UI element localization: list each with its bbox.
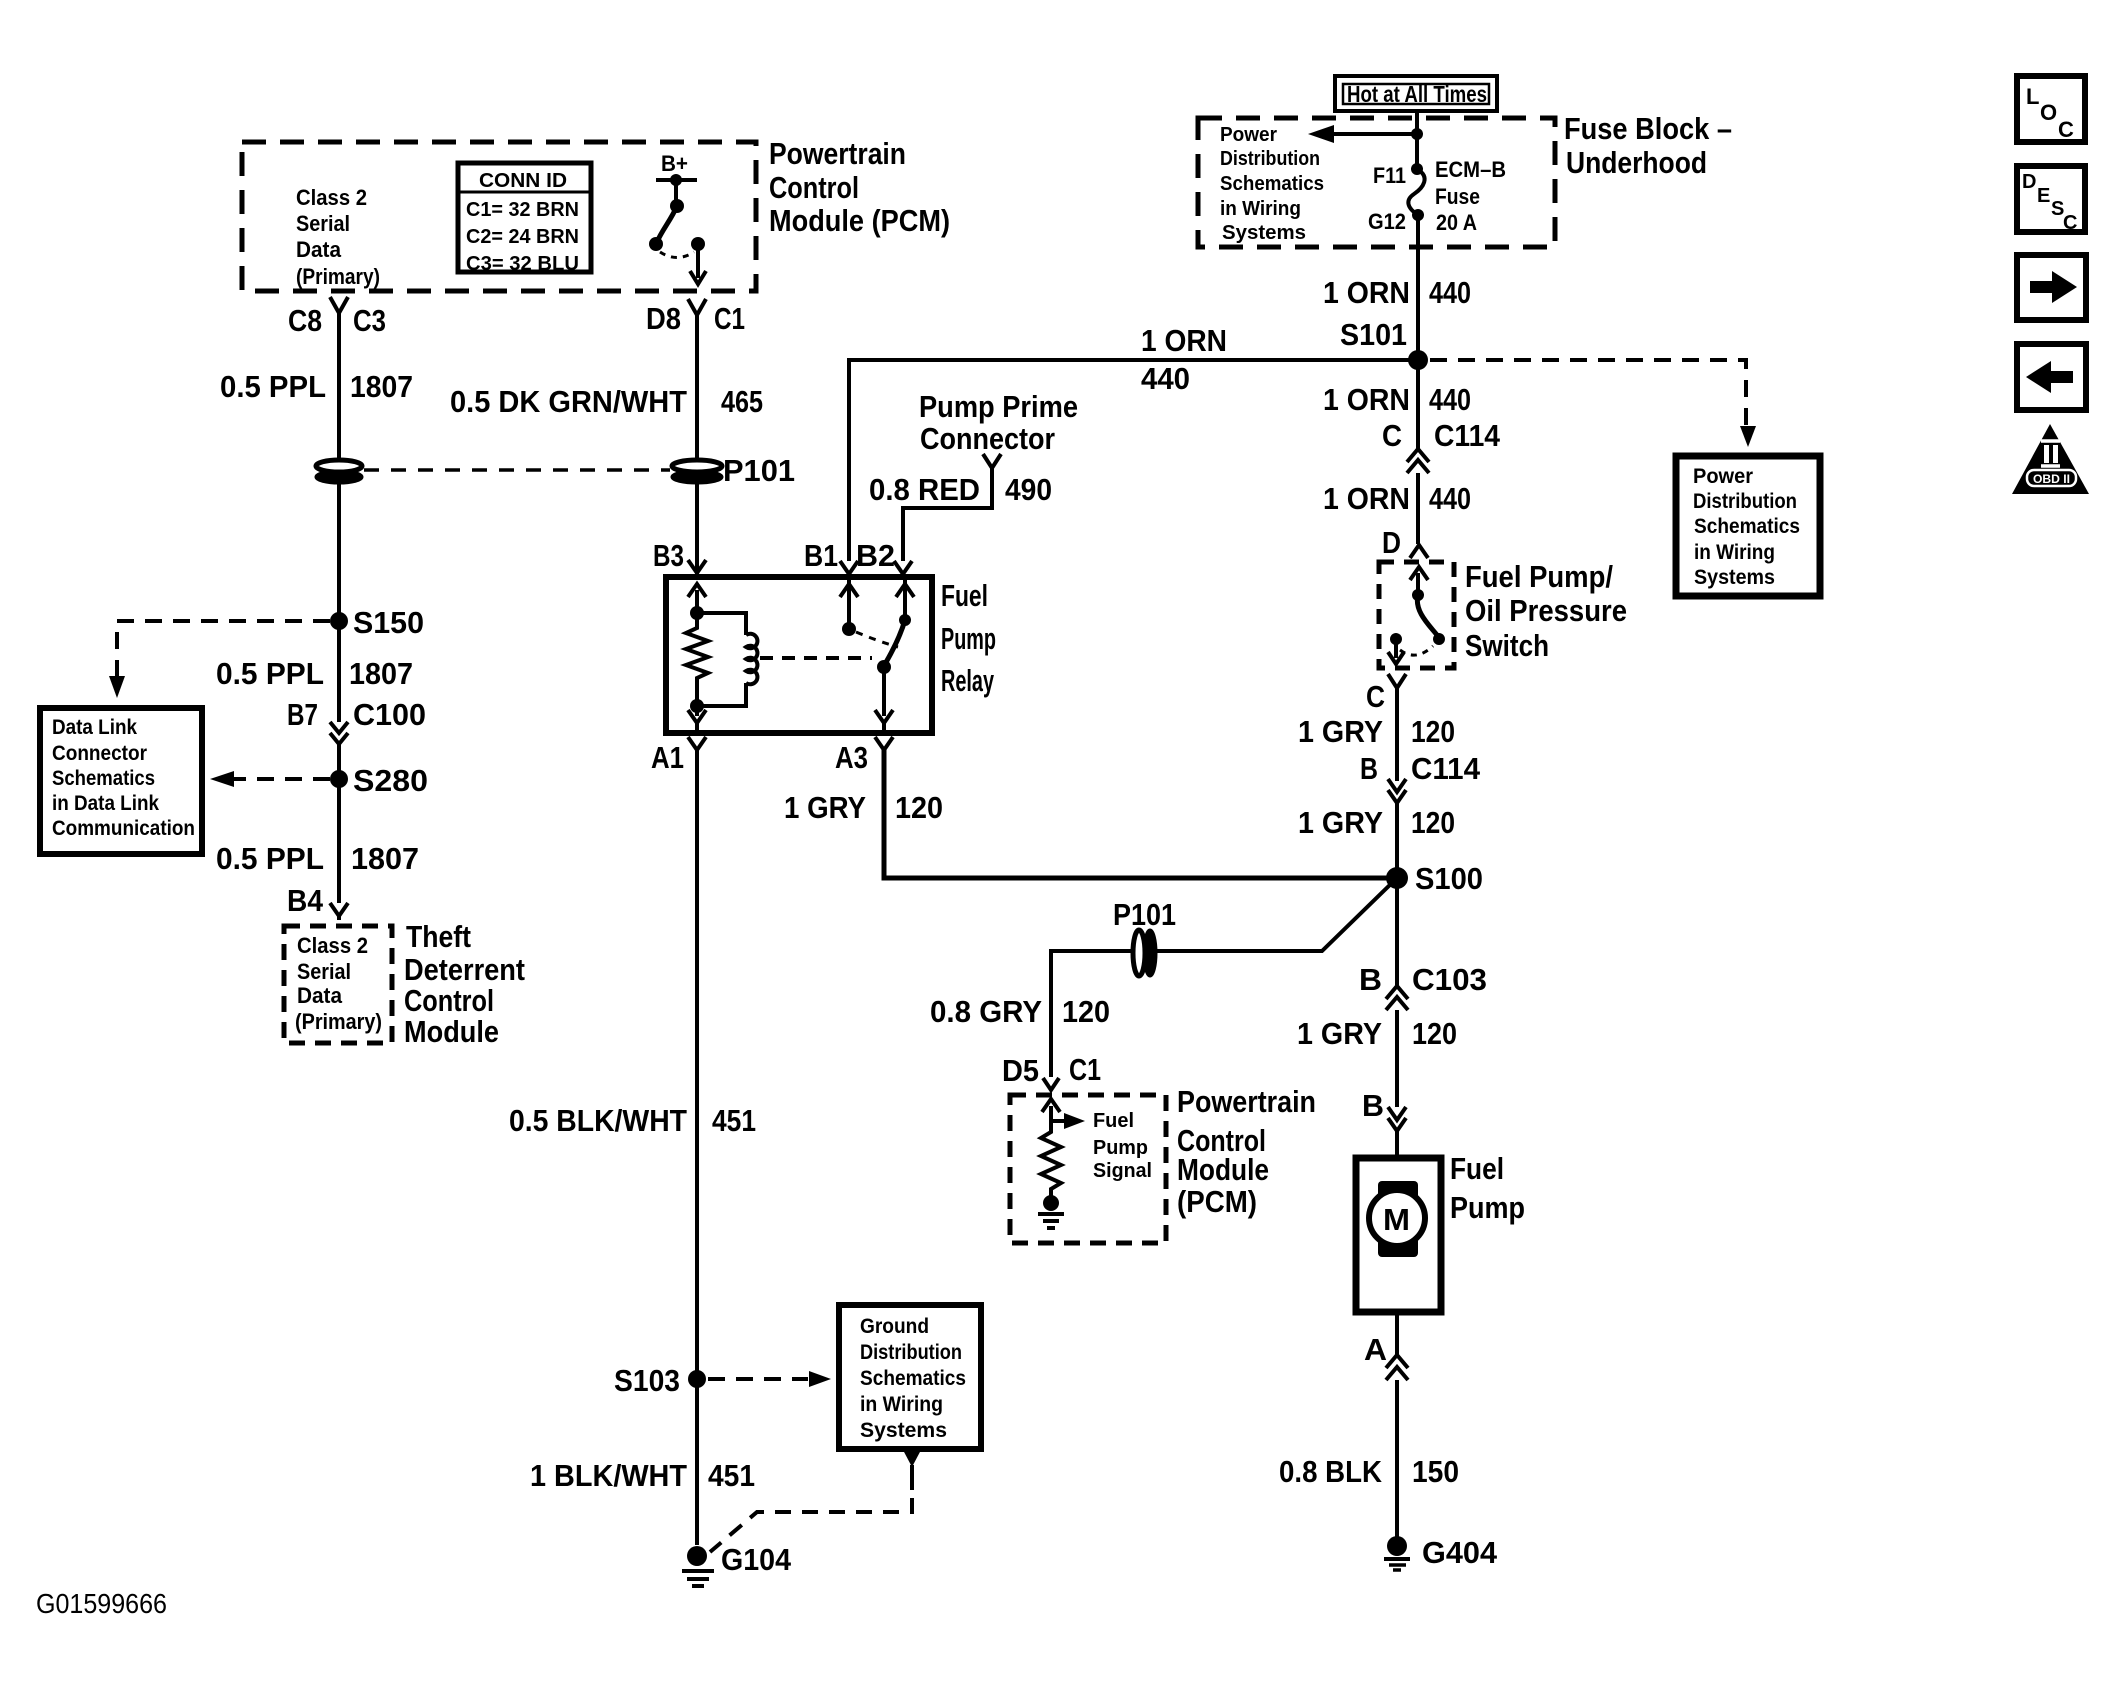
wire: A down to G404 — [1395, 1380, 1399, 1545]
svg-text:Power: Power — [1693, 465, 1753, 488]
splice S101 — [1340, 317, 1428, 370]
svg-text:C1= 32 BRN: C1= 32 BRN — [466, 199, 579, 221]
connector C / C114 — [1382, 418, 1501, 473]
wire label 1 GRY | 120 (above B/C114) — [1298, 714, 1455, 749]
wire label 1 ORN / 440 (horizontal run) — [1141, 323, 1227, 396]
wire: banner down into fuse block — [1415, 111, 1419, 169]
svg-text:Serial: Serial — [297, 959, 351, 984]
connector A3 below relay — [835, 737, 893, 775]
wire: P101 down to S150 — [337, 482, 341, 621]
svg-text:1807: 1807 — [349, 656, 413, 691]
svg-text:in Data Link: in Data Link — [52, 792, 159, 815]
svg-text:120: 120 — [1411, 805, 1455, 840]
note text: Power Distribution Schematics in Wiring Systems (fuse block) — [1220, 124, 1324, 244]
label: Fuel Pump Relay — [941, 578, 996, 698]
CONN ID table — [458, 163, 591, 275]
svg-text:G104: G104 — [721, 1542, 792, 1577]
svg-text:B: B — [1360, 751, 1378, 786]
svg-text:0.5 PPL: 0.5 PPL — [216, 656, 324, 691]
svg-text:0.8 RED: 0.8 RED — [869, 472, 980, 507]
svg-text:E: E — [2037, 185, 2050, 207]
svg-text:O: O — [2040, 100, 2057, 125]
module box: Theft Deterrent Control Module (dashed) — [284, 926, 392, 1043]
svg-text:C2= 24 BRN: C2= 24 BRN — [466, 226, 579, 248]
wire: S100 down to C103 — [1395, 878, 1399, 988]
svg-text:1 GRY: 1 GRY — [1298, 805, 1383, 840]
svg-text:1807: 1807 — [350, 369, 413, 404]
banner: Hot at All Times — [1335, 76, 1497, 111]
svg-text:Switch: Switch — [1465, 628, 1549, 663]
connector B1 above relay — [804, 538, 858, 574]
svg-text:Schematics: Schematics — [52, 767, 155, 790]
svg-text:Ground: Ground — [860, 1315, 929, 1338]
in-line connector P101 (left half, lens symbol) — [316, 460, 362, 483]
wire: fuel pump down to connector A — [1395, 1312, 1399, 1357]
svg-text:Data Link: Data Link — [52, 716, 137, 739]
module box: Powertrain Control Module (PCM), dashed outline — [242, 142, 756, 291]
relay box: Fuel Pump Relay — [666, 577, 932, 733]
wire: P101 down to relay pin B3 — [695, 482, 699, 577]
fuse F11/G12 ECM-B Fuse 20 A — [1368, 157, 1506, 235]
svg-text:C114: C114 — [1434, 418, 1501, 453]
svg-text:(Primary): (Primary) — [296, 264, 380, 289]
svg-text:Powertrain: Powertrain — [1177, 1084, 1316, 1119]
wire: C1 down to P101 — [695, 315, 699, 460]
oil pressure switch internals — [1388, 567, 1445, 664]
svg-text:Distribution: Distribution — [1220, 148, 1320, 170]
svg-text:C: C — [1382, 418, 1402, 453]
icon: arrow right — [2017, 255, 2086, 320]
svg-text:120: 120 — [1062, 994, 1110, 1029]
wire label 1 ORN | 440 (below S101) — [1323, 382, 1471, 417]
connector A1 below relay — [651, 737, 706, 775]
relay dashed throw arc — [856, 632, 898, 647]
wire label 0.5 DK GRN/WHT | 465 — [450, 384, 763, 419]
label: Powertrain Control Module (PCM) — [769, 136, 950, 238]
svg-text:Fuse: Fuse — [1435, 184, 1480, 209]
svg-text:Connector: Connector — [52, 742, 147, 765]
svg-text:L: L — [2026, 84, 2039, 109]
svg-text:Oil Pressure: Oil Pressure — [1465, 593, 1627, 628]
svg-text:Module (PCM): Module (PCM) — [769, 203, 950, 238]
svg-text:0.5 BLK/WHT: 0.5 BLK/WHT — [509, 1103, 687, 1138]
label: Pump Prime Connector — [919, 389, 1078, 456]
svg-text:Underhood: Underhood — [1566, 145, 1707, 180]
svg-text:C: C — [1366, 679, 1385, 714]
pump prime connector terminal (Y) — [983, 454, 1001, 468]
ground G104 — [682, 1542, 792, 1586]
wire: B7/C100 to S280 — [337, 744, 341, 779]
svg-text:20 A: 20 A — [1436, 210, 1477, 235]
wire: pump prime connector down to relay pin B2 — [903, 468, 992, 561]
in-line connector P101 (vertical, signal branch) — [1113, 897, 1176, 976]
module box: PCM fuel pump signal (dashed) — [1010, 1095, 1166, 1243]
wire label 1 BLK/WHT | 451 — [530, 1458, 755, 1493]
svg-text:ECM–B: ECM–B — [1435, 157, 1506, 182]
label: Fuel Pump Signal — [1093, 1110, 1152, 1182]
dashed reference from S101 to right Power Distribution box — [1430, 360, 1756, 447]
svg-text:(Primary): (Primary) — [295, 1009, 382, 1034]
svg-text:120: 120 — [1411, 714, 1455, 749]
svg-text:in Wiring: in Wiring — [1220, 198, 1301, 220]
wire label 0.8 BLK | 150 — [1279, 1454, 1459, 1489]
svg-text:Pump: Pump — [1450, 1190, 1525, 1225]
wire label 0.5 PPL | 1807 — [220, 369, 413, 404]
relay pin B2 and switch blade — [877, 577, 914, 674]
connector A — [1364, 1332, 1408, 1380]
svg-text:C114: C114 — [1411, 751, 1481, 786]
connector B4 (terminal into theft module) — [287, 883, 348, 920]
svg-text:0.8 BLK: 0.8 BLK — [1279, 1454, 1383, 1489]
wire: S280 to B4 — [337, 779, 341, 903]
connector D8 / C1 at PCM box bottom — [646, 299, 745, 336]
svg-text:S101: S101 — [1340, 317, 1407, 352]
wire label 1 GRY | 120 (A3 branch) — [784, 790, 943, 825]
dashed tie line between P101 halves — [364, 468, 670, 472]
wire: A1 down to S103 — [695, 750, 699, 1379]
svg-text:Systems: Systems — [1694, 566, 1775, 589]
switch symbol inside PCM box (B+ driver) — [649, 151, 706, 284]
svg-text:C1: C1 — [714, 301, 745, 336]
svg-text:F11: F11 — [1373, 163, 1406, 188]
svg-text:Schematics: Schematics — [860, 1367, 966, 1390]
wire: C3 down to in-line connector P101 — [337, 313, 341, 460]
svg-text:Powertrain: Powertrain — [769, 136, 906, 171]
svg-text:Module: Module — [404, 1014, 499, 1049]
svg-text:440: 440 — [1429, 382, 1471, 417]
switch box: Fuel Pump / Oil Pressure Switch (dashed) — [1379, 562, 1454, 668]
junction dot and arrow to power distribution note — [1308, 125, 1423, 143]
svg-text:B1: B1 — [804, 538, 838, 573]
svg-text:Data: Data — [296, 237, 342, 262]
splice S150 — [330, 605, 424, 640]
svg-text:Signal: Signal — [1093, 1160, 1152, 1182]
wire: A3 down and right to S100 — [884, 750, 1397, 878]
wire: S100 diagonal down to PCM signal tap — [1157, 878, 1397, 951]
connector B above fuel pump — [1362, 1088, 1406, 1131]
svg-text:0.5 PPL: 0.5 PPL — [216, 841, 324, 876]
svg-text:Deterrent: Deterrent — [404, 952, 525, 987]
svg-text:C8: C8 — [288, 303, 322, 338]
svg-text:0.5 PPL: 0.5 PPL — [220, 369, 326, 404]
svg-text:Relay: Relay — [941, 663, 994, 698]
svg-text:B: B — [1362, 1088, 1384, 1123]
svg-text:Power: Power — [1220, 124, 1277, 146]
wire: fuse down to S101 — [1416, 215, 1420, 360]
info box: Power Distribution Schematics in Wiring Systems (right) — [1676, 456, 1820, 596]
svg-text:P101: P101 — [1113, 897, 1176, 932]
svg-text:S280: S280 — [353, 763, 428, 798]
splice S100 — [1386, 861, 1483, 896]
svg-text:440: 440 — [1429, 275, 1471, 310]
svg-text:G404: G404 — [1422, 1535, 1498, 1570]
svg-text:Communication: Communication — [52, 817, 195, 840]
wire label 0.8 RED | 490 — [869, 472, 1052, 507]
svg-text:Class 2: Class 2 — [297, 933, 368, 958]
svg-text:120: 120 — [895, 790, 943, 825]
label: Fuse Block - Underhood — [1564, 111, 1732, 180]
wire label 0.8 GRY | 120 — [930, 994, 1110, 1029]
svg-text:Data: Data — [297, 983, 343, 1008]
svg-text:0.5 DK GRN/WHT: 0.5 DK GRN/WHT — [450, 384, 687, 419]
label: Fuel Pump / Oil Pressure Switch — [1465, 559, 1627, 663]
svg-text:Distribution: Distribution — [860, 1341, 962, 1364]
fuse block dashed box — [1198, 118, 1555, 247]
wire: S101 down to connector C/C114 — [1416, 360, 1420, 451]
svg-text:Schematics: Schematics — [1694, 515, 1800, 538]
svg-text:C: C — [2063, 212, 2077, 234]
svg-text:B4: B4 — [287, 883, 324, 918]
svg-text:Control: Control — [404, 983, 494, 1018]
wire: S150 to connector B7/C100 — [337, 621, 341, 722]
svg-text:1 ORN: 1 ORN — [1141, 323, 1227, 358]
svg-text:451: 451 — [712, 1103, 756, 1138]
svg-text:150: 150 — [1412, 1454, 1459, 1489]
svg-text:OBD II: OBD II — [2033, 472, 2070, 486]
relay coil — [697, 613, 757, 706]
svg-text:P101: P101 — [723, 453, 795, 488]
wire: B down to fuel pump — [1395, 1131, 1399, 1158]
svg-text:Serial: Serial — [296, 211, 350, 236]
wire: S103 down to G104 — [695, 1379, 699, 1545]
wire label 0.5 PPL | 1807 (second) — [216, 656, 413, 691]
label: Fuel Pump — [1450, 1151, 1525, 1225]
connector B7 / C100 — [287, 697, 426, 744]
svg-text:A1: A1 — [651, 740, 684, 775]
svg-text:B: B — [1359, 962, 1382, 997]
svg-text:S103: S103 — [614, 1363, 680, 1398]
svg-text:A3: A3 — [835, 740, 868, 775]
svg-text:A: A — [1364, 1332, 1387, 1367]
splice S280 — [330, 763, 428, 798]
svg-text:Fuel: Fuel — [1093, 1110, 1134, 1132]
wire: C103 down to connector B — [1395, 1010, 1399, 1107]
svg-text:Systems: Systems — [860, 1419, 947, 1442]
svg-text:1 GRY: 1 GRY — [1297, 1016, 1382, 1051]
svg-text:1 GRY: 1 GRY — [784, 790, 866, 825]
wire: C114 down to connector D — [1416, 473, 1420, 544]
svg-text:C1: C1 — [1069, 1052, 1101, 1087]
svg-text:D: D — [2022, 171, 2036, 193]
svg-text:Fuel Pump/: Fuel Pump/ — [1465, 559, 1613, 594]
wire label 1 GRY | 120 (above S100) — [1298, 805, 1455, 840]
relay internal node (top of coil/resistor) — [690, 606, 704, 620]
wire: C down to connector B/C114 — [1395, 688, 1399, 781]
svg-text:B+: B+ — [661, 151, 688, 176]
ground G404 — [1384, 1535, 1498, 1570]
wire label 1 ORN | 440 (above S101) — [1323, 275, 1471, 310]
relay pin A3 exit arrow — [875, 667, 893, 733]
dashed reference arrow from S103 to ground box — [708, 1371, 831, 1387]
svg-text:G12: G12 — [1368, 209, 1406, 234]
wire label 0.5 PPL | 1807 (third) — [216, 841, 419, 876]
fuel pump box — [1356, 1158, 1441, 1312]
wire: B/C114 down to S100 — [1395, 803, 1399, 878]
svg-text:Systems: Systems — [1222, 222, 1306, 244]
svg-text:Fuel: Fuel — [941, 578, 988, 613]
icon: LOC — [2017, 76, 2085, 142]
svg-text:C100: C100 — [353, 697, 426, 732]
label: Theft Deterrent Control Module — [404, 919, 525, 1049]
splice S103 — [614, 1363, 706, 1398]
svg-text:D5: D5 — [1002, 1053, 1039, 1088]
svg-text:B7: B7 — [287, 697, 318, 732]
svg-text:B3: B3 — [653, 538, 684, 573]
svg-text:Control: Control — [769, 170, 859, 205]
svg-text:440: 440 — [1429, 481, 1471, 516]
dashed reference from S150 to Data Link box — [109, 621, 330, 698]
svg-text:in Wiring: in Wiring — [860, 1393, 943, 1416]
svg-text:Hot at All Times: Hot at All Times — [1347, 81, 1487, 107]
icon: OBD II triangle — [2012, 424, 2089, 494]
connector B2 above relay — [856, 538, 912, 574]
svg-text:Schematics: Schematics — [1220, 173, 1324, 195]
wire label 1 GRY | 120 (below C103) — [1297, 1016, 1457, 1051]
svg-text:B2: B2 — [856, 538, 895, 573]
relay resistor — [686, 618, 708, 700]
svg-text:S150: S150 — [353, 605, 424, 640]
icon: arrow left — [2017, 344, 2086, 410]
connector C8 / C3 at PCM box bottom — [288, 297, 386, 338]
svg-text:M: M — [1383, 1202, 1410, 1237]
svg-text:1 ORN: 1 ORN — [1323, 382, 1410, 417]
svg-text:Pump: Pump — [1093, 1137, 1148, 1159]
label: Class 2 Serial Data (Primary) inside PCM box — [296, 185, 380, 289]
connector B3 — [653, 538, 706, 573]
svg-text:451: 451 — [708, 1458, 755, 1493]
svg-text:Pump: Pump — [941, 621, 996, 656]
relay pin B3 entry arrow — [688, 584, 706, 613]
svg-text:0.8 GRY: 0.8 GRY — [930, 994, 1042, 1029]
wire label 1 ORN | 440 (above D) — [1323, 481, 1471, 516]
svg-text:(PCM): (PCM) — [1177, 1184, 1257, 1219]
icon: DESC — [2017, 166, 2085, 234]
svg-text:D: D — [1382, 525, 1401, 560]
svg-text:CONN ID: CONN ID — [479, 170, 567, 192]
label: Powertrain Control Module (PCM) (bottom) — [1177, 1084, 1316, 1219]
connector B / C114 — [1360, 751, 1481, 803]
svg-text:D8: D8 — [646, 301, 681, 336]
svg-text:Connector: Connector — [920, 421, 1055, 456]
svg-text:1807: 1807 — [351, 841, 419, 876]
svg-text:Module: Module — [1177, 1152, 1269, 1187]
in-line connector P101 (right half) with label — [672, 453, 795, 488]
relay dashed actuation line from coil — [760, 656, 872, 660]
svg-text:Fuel: Fuel — [1450, 1151, 1504, 1186]
info box: Data Link Connector Schematics in Data Link Communication — [40, 708, 202, 854]
svg-text:1 GRY: 1 GRY — [1298, 714, 1383, 749]
info box: Ground Distribution Schematics in Wiring Systems — [839, 1305, 981, 1449]
svg-text:440: 440 — [1141, 361, 1190, 396]
svg-text:G01599666: G01599666 — [36, 1588, 167, 1619]
dashed return from ground box toward G104 — [710, 1450, 921, 1552]
connector D — [1382, 525, 1428, 560]
wire: P101 left then down to D5 — [1051, 951, 1133, 1077]
connector C below switch box — [1366, 674, 1406, 714]
svg-text:S100: S100 — [1415, 861, 1483, 896]
dashed reference arrow from S280 to Data Link box — [210, 771, 330, 787]
svg-text:490: 490 — [1005, 472, 1052, 507]
svg-text:465: 465 — [721, 384, 763, 419]
svg-text:in Wiring: in Wiring — [1694, 541, 1775, 564]
relay internal node (bottom) — [690, 699, 704, 713]
connector B / C103 — [1359, 962, 1487, 1010]
fuel pump motor symbol — [1369, 1181, 1425, 1257]
svg-text:120: 120 — [1412, 1016, 1457, 1051]
svg-text:C3= 32 BLU: C3= 32 BLU — [466, 253, 579, 275]
svg-text:Class 2: Class 2 — [296, 185, 367, 210]
svg-text:Distribution: Distribution — [1693, 490, 1797, 513]
svg-text:1 ORN: 1 ORN — [1323, 275, 1410, 310]
svg-text:C103: C103 — [1412, 962, 1487, 997]
pcm input arrow and sense resistor — [1038, 1099, 1085, 1228]
relay pin B1 — [840, 577, 858, 636]
wire: S101 horizontal run down to relay pin B1 — [849, 360, 1418, 561]
connector D5 / C1 — [1002, 1052, 1101, 1090]
relay pin A1 exit arrow — [688, 700, 706, 733]
svg-text:Pump Prime: Pump Prime — [919, 389, 1078, 424]
wire label 0.5 BLK/WHT | 451 — [509, 1103, 756, 1138]
svg-text:C: C — [2058, 117, 2074, 142]
svg-text:1 BLK/WHT: 1 BLK/WHT — [530, 1458, 687, 1493]
svg-text:1 ORN: 1 ORN — [1323, 481, 1410, 516]
svg-text:Fuse Block –: Fuse Block – — [1564, 111, 1732, 146]
svg-text:Theft: Theft — [406, 919, 471, 954]
svg-text:C3: C3 — [353, 303, 386, 338]
